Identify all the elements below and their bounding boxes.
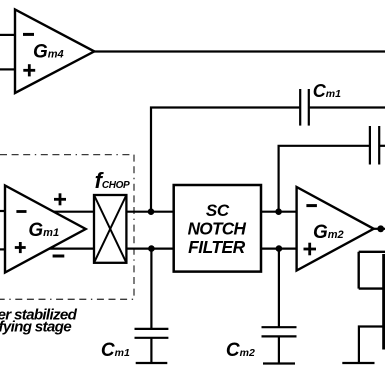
wire Gm4 non-inverting input — [0, 68, 15, 70]
junction node Gm2 output — [377, 225, 384, 232]
wire Gm4 output net — [94, 50, 385, 52]
svg-text:fying stage: fying stage — [0, 319, 72, 336]
ground terminal of Cm2 — [263, 362, 295, 364]
wire to shunt Cm2 — [278, 249, 280, 328]
wire notch filter to Gm2 (bottom) — [261, 248, 297, 250]
wire right-edge rail — [382, 254, 385, 350]
caption: er stabilized / fying stage — [0, 306, 78, 335]
wire feedback net with Cm1 (y=107.5) — [151, 108, 299, 212]
chopper output polarity labels — [53, 193, 66, 256]
junction node at (278.6,211.7) — [275, 208, 282, 215]
wire lower bracket to ground — [359, 327, 384, 364]
chopper stabilized stage dashed box — [0, 155, 134, 300]
wire Gm2 output — [374, 228, 385, 230]
junction node at (151,211.7) — [148, 208, 155, 215]
wire chopper to notch filter (top) — [126, 211, 173, 213]
wire Gm1 outputs to chopper — [50, 211, 94, 213]
wire chopper to notch filter (bottom) — [126, 248, 173, 250]
op-amp Gm2 — [297, 187, 374, 271]
capacitor Cm1 (series, top right) — [300, 81, 341, 126]
junction node at (278.9,248.6) — [276, 245, 283, 252]
junction node at (151.4,248.6) — [148, 245, 155, 252]
wire notch filter to Gm2 (top) — [261, 211, 297, 213]
wire Gm1 non-inverting input — [0, 248, 6, 250]
capacitor Cm2 (shunt, bottom) — [226, 327, 297, 363]
capacitor Cm1 (shunt, bottom) — [101, 329, 168, 363]
svg-text:SC: SC — [206, 201, 230, 220]
chopper modulator — [94, 195, 126, 263]
wire feedback net with second cap (y=145.8) — [279, 146, 370, 212]
wire Gm4 inverting input — [0, 34, 15, 36]
capacitor (series, right edge) — [370, 126, 379, 165]
wire Gm1 inverting input — [0, 210, 6, 212]
wire to shunt Cm1 — [150, 249, 152, 329]
ground — [342, 362, 374, 364]
resistor box (feedback, cut at edge) — [359, 252, 385, 289]
ground terminal of Cm1 — [136, 362, 168, 364]
svg-text:FILTER: FILTER — [188, 237, 246, 257]
svg-text:NOTCH: NOTCH — [188, 219, 247, 239]
op-amp Gm4 — [15, 10, 94, 94]
op-amp Gm1 — [5, 186, 86, 273]
SC notch filter block — [174, 185, 261, 272]
